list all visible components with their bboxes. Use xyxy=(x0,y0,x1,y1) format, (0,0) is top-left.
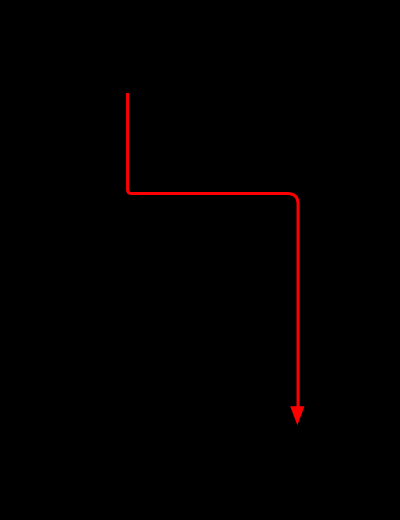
wire xyxy=(128,93,298,408)
arrowhead xyxy=(290,406,304,425)
